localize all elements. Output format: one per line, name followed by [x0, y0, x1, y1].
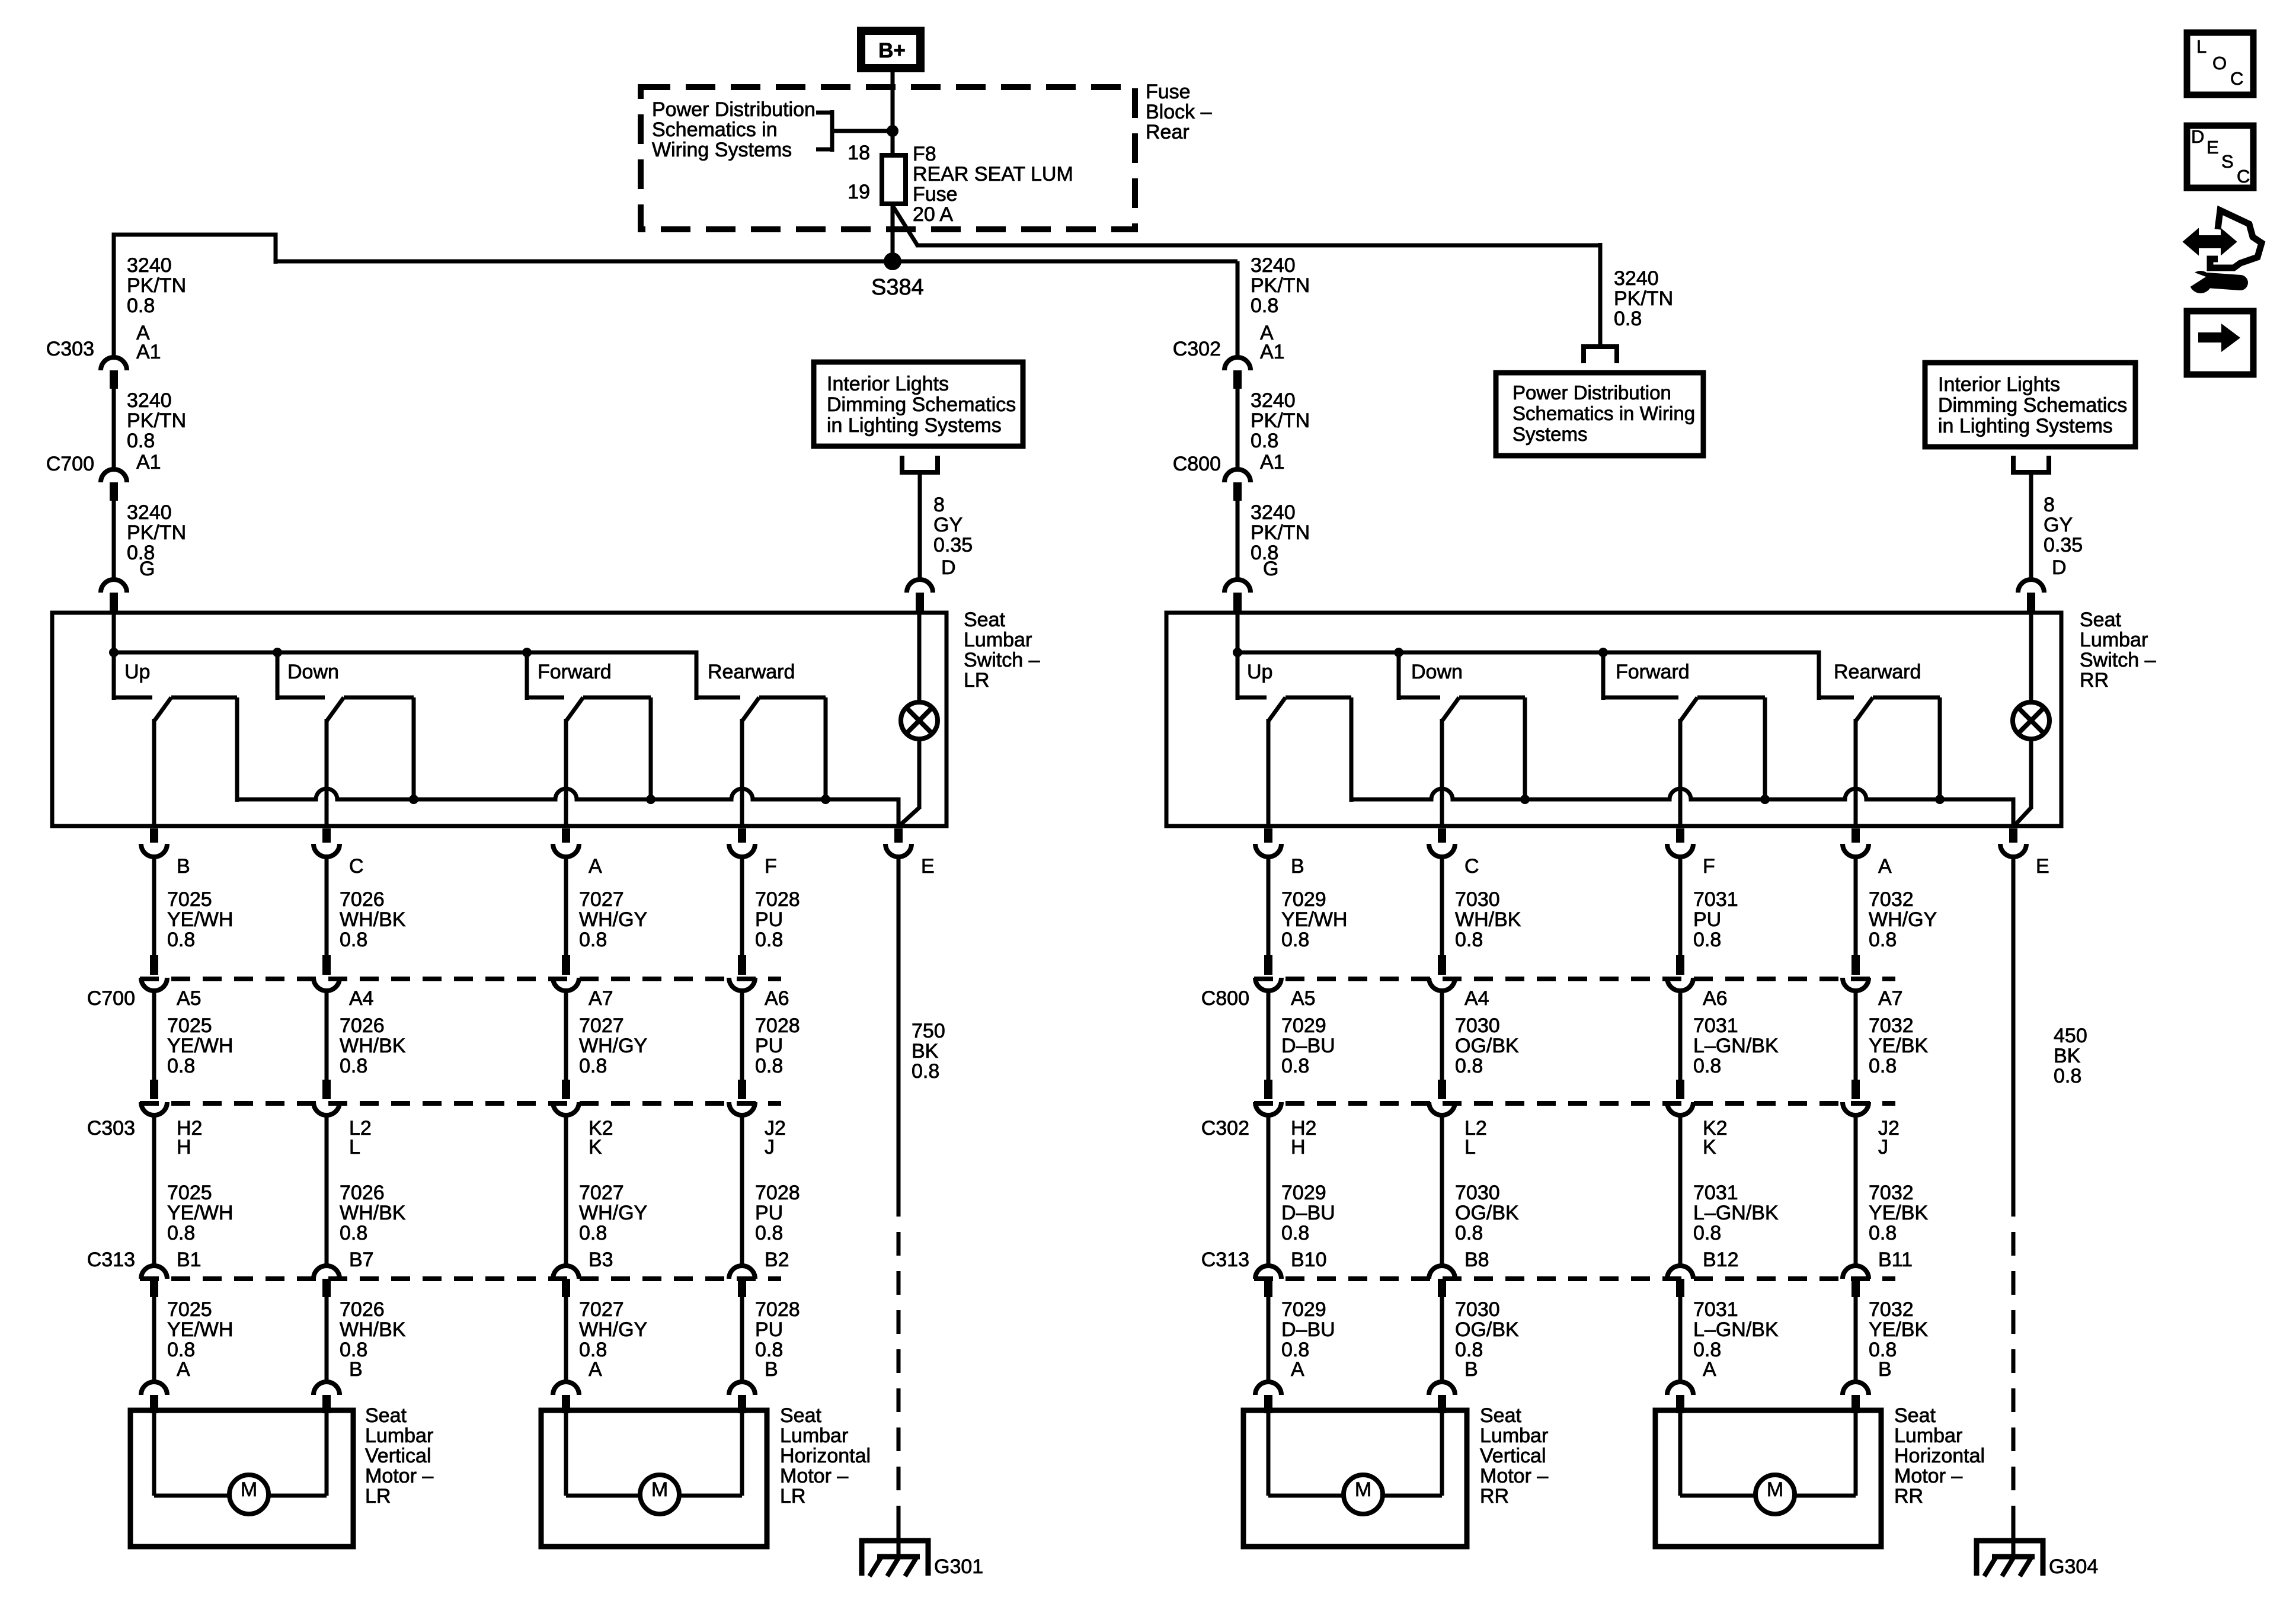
svg-text:YE/WH: YE/WH: [167, 1202, 233, 1224]
svg-text:7026: 7026: [340, 1298, 385, 1321]
svg-text:7030: 7030: [1455, 888, 1500, 911]
wire 7032 WH/GY segment 1 RR-col4: [1854, 856, 1858, 956]
svg-text:Down: Down: [1411, 661, 1463, 683]
motor pin A connector LR-col1: [141, 1382, 167, 1395]
svg-text:Interior Lights: Interior Lights: [1938, 373, 2060, 396]
svg-text:B1: B1: [177, 1249, 202, 1271]
svg-text:3240: 3240: [1251, 501, 1296, 524]
svg-text:A: A: [177, 1358, 190, 1381]
svg-text:C: C: [2237, 166, 2250, 187]
wire C800 to switch G (RR): [1236, 501, 1240, 581]
svg-text:WH/BK: WH/BK: [340, 1318, 406, 1341]
main bus wire S384 level: [276, 260, 1237, 264]
svg-text:0.8: 0.8: [340, 929, 367, 951]
svg-text:YE/BK: YE/BK: [1869, 1035, 1928, 1057]
inline connector at C3xx row RR-col4: [1851, 1080, 1860, 1099]
svg-text:WH/GY: WH/GY: [579, 1202, 647, 1224]
dashed connector row C800: [1254, 977, 1895, 981]
switch pin B connector LR-col1: [150, 828, 158, 843]
wire 7026 WH/BK segment 3 LR-col2: [325, 1114, 329, 1266]
svg-text:C800: C800: [1201, 987, 1249, 1010]
svg-text:WH/GY: WH/GY: [579, 1318, 647, 1341]
switch Forward RR: [1601, 652, 1606, 700]
svg-text:BK: BK: [912, 1040, 939, 1062]
svg-text:0.8: 0.8: [1251, 430, 1278, 452]
svg-text:E: E: [921, 855, 935, 878]
wire 7027 WH/GY segment 4 LR-col3: [564, 1297, 568, 1383]
svg-text:A1: A1: [136, 341, 161, 363]
switch pin B connector RR-col1: [1264, 828, 1272, 843]
dashed connector row C303: [140, 1101, 781, 1106]
svg-text:A6: A6: [765, 987, 789, 1010]
svg-text:A: A: [589, 1358, 602, 1381]
inline connector at C7/800 row RR-col1: [1264, 955, 1272, 975]
inline connector at C7/800 row RR-col2: [1438, 955, 1446, 975]
svg-text:7032: 7032: [1869, 888, 1914, 911]
svg-text:0.8: 0.8: [1455, 1055, 1483, 1077]
svg-text:M: M: [651, 1478, 668, 1501]
illumination lamp RR: [2029, 612, 2033, 703]
svg-text:PK/TN: PK/TN: [127, 274, 186, 297]
svg-text:A: A: [1291, 1358, 1304, 1381]
svg-text:0.8: 0.8: [167, 929, 195, 951]
internal lower bus to pin E LR: [237, 789, 898, 826]
icon DESC button: [2187, 126, 2253, 188]
wire 8 GY 0.35 (RR): [2029, 472, 2033, 581]
svg-text:O: O: [2212, 53, 2227, 73]
motor seat lumbar horizontal LR: [541, 1410, 767, 1547]
svg-text:B3: B3: [589, 1249, 613, 1271]
svg-text:Motor –: Motor –: [780, 1465, 848, 1487]
svg-text:GY: GY: [933, 514, 962, 536]
switch Down RR: [1397, 652, 1401, 700]
wire 8 GY 0.35 (LR): [918, 472, 922, 581]
svg-text:Forward: Forward: [538, 661, 612, 683]
wire fuse output diagonal to right feed: [893, 206, 917, 245]
svg-text:M: M: [1355, 1478, 1371, 1501]
svg-text:C: C: [2230, 68, 2243, 89]
svg-text:D: D: [941, 556, 956, 579]
svg-text:WH/BK: WH/BK: [340, 908, 406, 931]
internal top bus LR: [114, 652, 696, 700]
svg-text:Seat: Seat: [365, 1404, 407, 1427]
svg-text:Lumbar: Lumbar: [1480, 1425, 1548, 1447]
wire fuse output to splice S384: [891, 204, 895, 264]
dashed connector row C302: [1254, 1101, 1895, 1106]
svg-text:Wiring Systems: Wiring Systems: [652, 139, 792, 161]
svg-text:C: C: [349, 855, 364, 878]
svg-text:C: C: [1464, 855, 1479, 878]
bracket from power distribution label to node: [816, 111, 832, 115]
inline connector at C313 row LR-col4: [729, 1266, 755, 1279]
svg-text:Rear: Rear: [1146, 121, 1189, 143]
wire 7025 YE/WH segment 2 LR-col1: [152, 990, 156, 1081]
svg-text:Fuse: Fuse: [913, 183, 958, 206]
svg-text:0.8: 0.8: [579, 1055, 607, 1077]
svg-text:PK/TN: PK/TN: [1251, 521, 1310, 544]
switch pin A connector LR-col3: [562, 828, 570, 843]
wire 7029 D–BU segment 4 RR-col1: [1267, 1297, 1271, 1383]
svg-text:8: 8: [2044, 494, 2055, 516]
svg-text:Lumbar: Lumbar: [964, 629, 1032, 651]
svg-text:19: 19: [848, 181, 870, 203]
switch Up RR: [1236, 652, 1240, 700]
wire right chain drop C302: [1236, 261, 1240, 359]
svg-text:H: H: [1291, 1136, 1306, 1158]
svg-text:PU: PU: [755, 1318, 783, 1341]
svg-text:PK/TN: PK/TN: [1251, 409, 1310, 432]
inline connector at C313 row RR-col2: [1429, 1266, 1455, 1279]
wire 7028 PU segment 1 LR-col4: [740, 856, 744, 956]
svg-text:L: L: [1464, 1136, 1476, 1158]
inline connector at C313 row RR-col1: [1255, 1266, 1281, 1279]
svg-text:Switch –: Switch –: [964, 649, 1040, 671]
svg-text:A5: A5: [177, 987, 202, 1010]
svg-text:Horizontal: Horizontal: [780, 1445, 871, 1467]
svg-text:K: K: [589, 1136, 602, 1158]
svg-text:BK: BK: [2054, 1045, 2081, 1067]
svg-text:RR: RR: [1894, 1485, 1923, 1507]
svg-text:B: B: [349, 1358, 363, 1381]
svg-text:Dimming Schematics: Dimming Schematics: [827, 393, 1016, 416]
svg-text:WH/BK: WH/BK: [1455, 908, 1521, 931]
wire feed to power distribution box: [1598, 243, 1603, 345]
connector switch pin G: [101, 580, 127, 593]
wire 7031 L–GN/BK segment 4 RR-col3: [1678, 1297, 1683, 1383]
svg-text:B2: B2: [765, 1249, 789, 1271]
wire B+ to fuse block: [891, 72, 895, 155]
svg-text:A7: A7: [1878, 987, 1903, 1010]
svg-text:in Lighting Systems: in Lighting Systems: [1938, 415, 2113, 437]
dashed connector row C313 left: [140, 1276, 781, 1281]
svg-text:0.8: 0.8: [340, 1055, 367, 1077]
switch Down LR: [276, 652, 280, 700]
svg-text:A1: A1: [1260, 451, 1285, 473]
svg-text:Vertical: Vertical: [365, 1445, 431, 1467]
svg-text:WH/BK: WH/BK: [340, 1035, 406, 1057]
svg-text:C313: C313: [1201, 1249, 1249, 1271]
inline connector at C3xx row RR-col1: [1264, 1080, 1272, 1099]
inline connector at C3xx row RR-col2: [1438, 1080, 1446, 1099]
connector C700 pin A1: [101, 469, 127, 482]
svg-text:YE/WH: YE/WH: [167, 908, 233, 931]
icon LOC button: [2187, 33, 2253, 95]
svg-text:B: B: [1878, 1358, 1892, 1381]
svg-text:C313: C313: [87, 1249, 135, 1271]
svg-text:7029: 7029: [1281, 1014, 1326, 1037]
svg-text:Dimming Schematics: Dimming Schematics: [1938, 394, 2127, 417]
svg-text:LR: LR: [964, 669, 989, 692]
svg-text:B+: B+: [878, 39, 906, 62]
svg-text:3240: 3240: [1614, 267, 1659, 290]
svg-text:WH/BK: WH/BK: [340, 1202, 406, 1224]
svg-text:D–BU: D–BU: [1281, 1318, 1335, 1341]
svg-text:0.35: 0.35: [2044, 534, 2083, 556]
svg-text:7026: 7026: [340, 1014, 385, 1037]
svg-text:M: M: [1767, 1478, 1783, 1501]
connector switch pin G (RR): [1224, 580, 1251, 593]
svg-text:G304: G304: [2049, 1555, 2098, 1578]
svg-text:7025: 7025: [167, 1014, 212, 1037]
svg-text:WH/GY: WH/GY: [579, 908, 647, 931]
svg-text:B: B: [1291, 855, 1304, 878]
wire 7031 L–GN/BK segment 2 RR-col3: [1678, 990, 1683, 1081]
switch pin C connector RR-col2: [1438, 828, 1446, 843]
wire 7027 WH/GY segment 3 LR-col3: [564, 1114, 568, 1266]
svg-text:3240: 3240: [1251, 389, 1296, 412]
wire 7030 OG/BK segment 3 RR-col2: [1440, 1114, 1444, 1266]
wire 7025 YE/WH segment 3 LR-col1: [152, 1114, 156, 1266]
svg-text:0.8: 0.8: [579, 1222, 607, 1244]
internal lower bus to pin E RR: [1351, 789, 2013, 826]
svg-text:WH/GY: WH/GY: [579, 1035, 647, 1057]
wire switch feed into bus LR: [112, 613, 116, 700]
dashed connector row C313 right: [1254, 1276, 1895, 1281]
svg-text:7030: 7030: [1455, 1014, 1500, 1037]
svg-text:Schematics in: Schematics in: [652, 119, 778, 141]
svg-text:YE/WH: YE/WH: [167, 1035, 233, 1057]
wire 7026 WH/BK segment 2 LR-col2: [325, 990, 329, 1081]
svg-text:PK/TN: PK/TN: [127, 521, 186, 544]
svg-text:Motor –: Motor –: [1894, 1465, 1962, 1487]
wire 7026 WH/BK segment 4 LR-col2: [325, 1297, 329, 1383]
svg-text:Forward: Forward: [1616, 661, 1690, 683]
motor pin B connector RR-col4: [1843, 1382, 1869, 1395]
svg-text:PU: PU: [755, 1035, 783, 1057]
svg-text:0.8: 0.8: [1869, 1222, 1897, 1244]
svg-text:B: B: [765, 1358, 778, 1381]
svg-text:G301: G301: [934, 1555, 983, 1578]
svg-text:Power Distribution: Power Distribution: [1512, 382, 1671, 404]
fuse block dashed box (Fuse Block - Rear): [641, 87, 1135, 229]
svg-text:RR: RR: [1480, 1485, 1509, 1507]
wire switch feed into bus RR: [1236, 613, 1240, 700]
ground G304: [1977, 1541, 2043, 1576]
motor pin B connector LR-col4: [729, 1382, 755, 1395]
svg-text:S384: S384: [871, 275, 924, 300]
switch pin F connector LR-col4: [738, 828, 746, 843]
svg-text:F: F: [1703, 855, 1715, 878]
svg-text:PK/TN: PK/TN: [1614, 287, 1673, 310]
svg-text:450: 450: [2054, 1025, 2087, 1047]
svg-text:7032: 7032: [1869, 1298, 1914, 1321]
svg-text:E: E: [2036, 855, 2049, 878]
svg-text:0.8: 0.8: [755, 1055, 783, 1077]
svg-text:0.8: 0.8: [1251, 295, 1278, 317]
svg-text:Lumbar: Lumbar: [2080, 629, 2148, 651]
svg-text:3240: 3240: [1251, 254, 1296, 277]
svg-text:C303: C303: [46, 338, 94, 360]
wire 7032 YE/BK segment 3 RR-col4: [1854, 1114, 1858, 1266]
inline connector at C7/800 row LR-col4: [738, 955, 746, 975]
svg-text:7027: 7027: [579, 888, 624, 911]
svg-text:Seat: Seat: [2080, 609, 2121, 631]
svg-text:OG/BK: OG/BK: [1455, 1318, 1519, 1341]
svg-text:YE/WH: YE/WH: [167, 1318, 233, 1341]
svg-text:B12: B12: [1703, 1249, 1739, 1271]
inline connector at C313 row LR-col3: [553, 1266, 579, 1279]
svg-text:3240: 3240: [127, 501, 172, 524]
wire 7027 WH/GY segment 2 LR-col3: [564, 990, 568, 1081]
svg-text:A6: A6: [1703, 987, 1728, 1010]
connector switch pin D (LR): [907, 580, 933, 593]
svg-text:750: 750: [912, 1020, 945, 1042]
svg-text:B7: B7: [349, 1249, 374, 1271]
connector C800 pin A1: [1224, 469, 1251, 482]
svg-text:B: B: [1464, 1358, 1478, 1381]
dashed ground wire to G301: [897, 1193, 901, 1538]
svg-text:RR: RR: [2080, 669, 2109, 692]
svg-text:Lumbar: Lumbar: [365, 1425, 433, 1447]
svg-text:0.8: 0.8: [167, 1055, 195, 1077]
svg-text:C302: C302: [1201, 1117, 1249, 1140]
svg-text:PK/TN: PK/TN: [127, 409, 186, 432]
wire 7030 OG/BK segment 2 RR-col2: [1440, 990, 1444, 1081]
svg-text:A1: A1: [136, 451, 161, 473]
switch pin C connector LR-col2: [322, 828, 331, 843]
switch Rearward LR: [696, 696, 740, 700]
svg-text:7025: 7025: [167, 1298, 212, 1321]
motor pin B connector RR-col2: [1429, 1382, 1455, 1395]
inline connector at C3xx row LR-col1: [150, 1080, 158, 1099]
wire left chain top: [114, 235, 276, 359]
svg-text:D–BU: D–BU: [1281, 1202, 1335, 1224]
wire 7029 YE/WH segment 1 RR-col1: [1267, 856, 1271, 956]
motor pin A connector RR-col3: [1667, 1382, 1693, 1395]
svg-text:WH/GY: WH/GY: [1869, 908, 1937, 931]
svg-text:PU: PU: [755, 1202, 783, 1224]
svg-text:PK/TN: PK/TN: [1251, 274, 1310, 297]
svg-text:0.8: 0.8: [1614, 308, 1642, 330]
connector C302 pin A1: [1224, 357, 1251, 370]
svg-text:YE/BK: YE/BK: [1869, 1202, 1928, 1224]
svg-text:8: 8: [933, 494, 945, 516]
wire 750 BK 0.8 from pin E (LR): [897, 856, 901, 1193]
svg-text:7026: 7026: [340, 1182, 385, 1204]
svg-text:B8: B8: [1464, 1249, 1489, 1271]
svg-text:G: G: [139, 558, 155, 580]
svg-text:L: L: [349, 1136, 360, 1158]
motor pin A connector RR-col1: [1255, 1382, 1281, 1395]
svg-text:J: J: [765, 1136, 775, 1158]
svg-text:7031: 7031: [1693, 1298, 1738, 1321]
inline connector at C3xx row LR-col2: [322, 1080, 331, 1099]
svg-text:C700: C700: [87, 987, 135, 1010]
wire 7030 WH/BK segment 1 RR-col2: [1440, 856, 1444, 956]
svg-text:0.8: 0.8: [1281, 929, 1309, 951]
svg-text:7025: 7025: [167, 888, 212, 911]
svg-text:Seat: Seat: [780, 1404, 821, 1427]
svg-text:7028: 7028: [755, 1182, 800, 1204]
svg-text:C800: C800: [1173, 453, 1221, 475]
wire C303 to C700: [112, 389, 116, 468]
inline connector at C7/800 row LR-col3: [562, 955, 570, 975]
wire 7028 PU segment 4 LR-col4: [740, 1297, 744, 1383]
wire 7029 D–BU segment 2 RR-col1: [1267, 990, 1271, 1081]
switch pin E connector LR: [894, 828, 903, 843]
motor pin A connector LR-col3: [553, 1382, 579, 1395]
switch pin A connector RR-col4: [1851, 828, 1860, 843]
svg-text:Rearward: Rearward: [708, 661, 795, 683]
svg-text:7027: 7027: [579, 1182, 624, 1204]
svg-text:H: H: [177, 1136, 191, 1158]
svg-text:G: G: [1263, 558, 1278, 580]
wire 7027 WH/GY segment 1 LR-col3: [564, 856, 568, 956]
svg-text:Rearward: Rearward: [1834, 661, 1921, 683]
svg-text:0.8: 0.8: [1455, 1222, 1483, 1244]
splice S384: [884, 252, 901, 270]
wire 7025 YE/WH segment 1 LR-col1: [152, 856, 156, 956]
svg-text:Fuse: Fuse: [1146, 81, 1191, 103]
svg-text:F8: F8: [913, 143, 936, 165]
box Interior Lights Dimming Schematics (RR): [1925, 363, 2135, 447]
switch pin E connector RR: [2009, 828, 2017, 843]
svg-text:3240: 3240: [127, 254, 172, 277]
motor seat lumbar horizontal RR: [1655, 1410, 1881, 1547]
connector C303 pin A1: [101, 357, 127, 370]
inline connector at C3xx row LR-col4: [738, 1080, 746, 1099]
svg-text:OG/BK: OG/BK: [1455, 1202, 1519, 1224]
wire 450 BK 0.8 from pin E (RR): [2012, 856, 2016, 1193]
icon adjustable component with tools: [2185, 232, 2234, 252]
svg-text:0.8: 0.8: [1693, 929, 1721, 951]
svg-text:Up: Up: [124, 661, 150, 683]
svg-text:B11: B11: [1878, 1249, 1913, 1271]
ground G301: [862, 1541, 928, 1576]
svg-text:M: M: [241, 1478, 257, 1501]
svg-text:L–GN/BK: L–GN/BK: [1693, 1202, 1779, 1224]
inline connector at C313 row RR-col4: [1843, 1266, 1869, 1279]
svg-text:0.8: 0.8: [1693, 1222, 1721, 1244]
svg-text:0.8: 0.8: [127, 430, 155, 452]
svg-text:7032: 7032: [1869, 1014, 1914, 1037]
switch Rearward RR: [1819, 696, 1854, 700]
goes-to bracket (power dist): [1584, 347, 1617, 363]
motor seat lumbar vertical LR: [130, 1410, 353, 1547]
svg-text:A7: A7: [589, 987, 613, 1010]
came-from bracket (LR dimming): [902, 456, 938, 472]
svg-text:7028: 7028: [755, 1298, 800, 1321]
inline connector at C7/800 row LR-col2: [322, 955, 331, 975]
switch Forward LR: [525, 652, 529, 700]
svg-text:D: D: [2052, 556, 2067, 579]
svg-text:0.8: 0.8: [1869, 1055, 1897, 1077]
inline connector at C7/800 row RR-col3: [1676, 955, 1684, 975]
wire right feed to power distribution: [916, 244, 1600, 248]
svg-text:B: B: [177, 855, 190, 878]
connector switch pin D (RR): [2018, 580, 2044, 593]
node at fuse input: [887, 125, 898, 137]
seat lumbar switch box RR: [1166, 613, 2061, 826]
svg-text:7032: 7032: [1869, 1182, 1914, 1204]
wire C700 to switch G: [112, 501, 116, 581]
svg-text:F: F: [765, 855, 777, 878]
svg-text:E: E: [2207, 137, 2219, 158]
wire 7030 OG/BK segment 4 RR-col2: [1440, 1297, 1444, 1383]
svg-text:7027: 7027: [579, 1298, 624, 1321]
svg-text:7031: 7031: [1693, 1182, 1738, 1204]
motor seat lumbar vertical RR: [1243, 1410, 1467, 1547]
svg-text:Block –: Block –: [1146, 101, 1212, 123]
svg-text:7029: 7029: [1281, 888, 1326, 911]
wire C302 to C800: [1236, 389, 1240, 468]
illumination lamp LR: [917, 612, 922, 703]
svg-text:7027: 7027: [579, 1014, 624, 1037]
switch Up LR: [112, 652, 116, 700]
svg-text:3240: 3240: [127, 389, 172, 412]
svg-text:PU: PU: [755, 908, 783, 931]
svg-text:A: A: [1703, 1358, 1716, 1381]
